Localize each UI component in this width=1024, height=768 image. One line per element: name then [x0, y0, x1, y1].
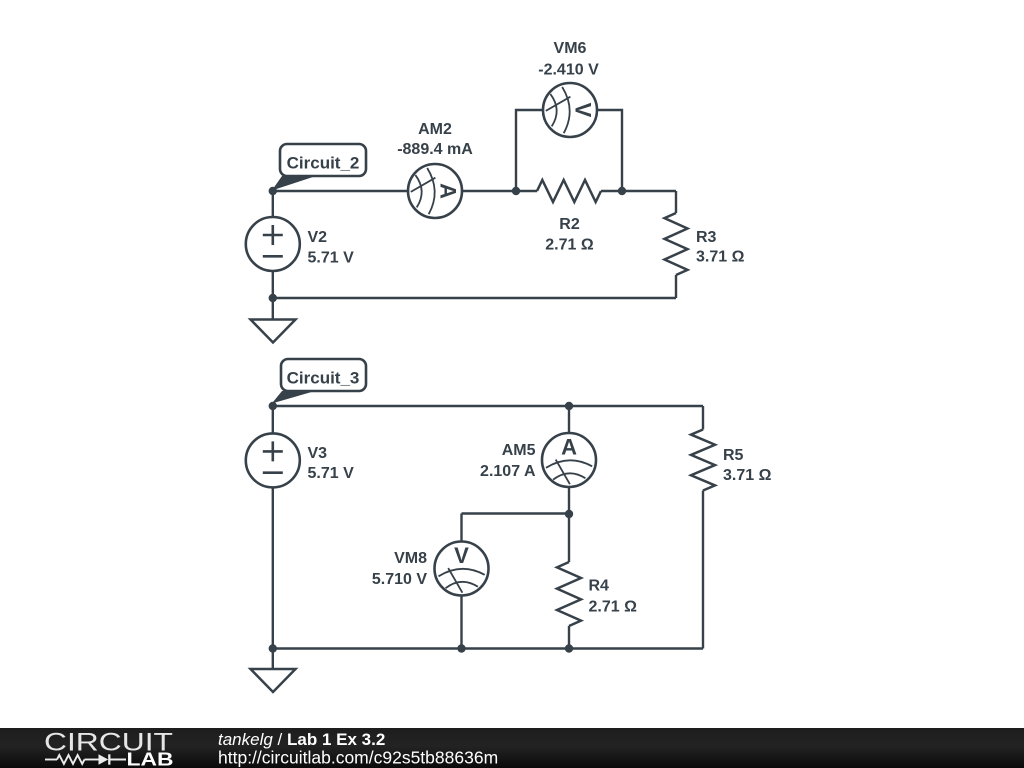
svg-text:V3: V3 — [308, 445, 328, 462]
svg-text:AM2: AM2 — [418, 121, 452, 138]
junction R2 left / VM6 left — [512, 187, 520, 195]
svg-text:AM5: AM5 — [502, 442, 536, 459]
svg-text:2.107 A: 2.107 A — [480, 463, 536, 480]
svg-text:2.71 Ω: 2.71 Ω — [545, 237, 594, 254]
svg-text:3.71 Ω: 3.71 Ω — [723, 467, 772, 484]
svg-text:5.71 V: 5.71 V — [308, 250, 355, 267]
wire top rail circuit 3 — [273, 405, 703, 407]
svg-text:V: V — [571, 103, 596, 118]
svg-text:R2: R2 — [559, 216, 580, 233]
wire R3 right branch — [675, 191, 677, 298]
wire bottom rail circuit 3 — [273, 647, 703, 649]
voltmeter VM8 — [372, 542, 489, 596]
wire V3 branch — [272, 406, 274, 649]
svg-text:2.71 Ω: 2.71 Ω — [589, 599, 638, 616]
junction V3 bottom / ground — [269, 644, 277, 652]
wire bottom rail circuit 2 — [273, 297, 676, 299]
resistor R5 — [691, 430, 772, 491]
wire VM6 loop — [516, 110, 622, 191]
svg-text:A: A — [436, 183, 461, 199]
wire R5 right branch — [702, 406, 704, 649]
svg-text:5.710 V: 5.710 V — [372, 571, 427, 588]
svg-text:5.71 V: 5.71 V — [308, 465, 355, 482]
wire AM5 R4 branch — [568, 406, 570, 649]
wire VM8 branch — [462, 514, 570, 649]
ammeter AM5 — [480, 433, 596, 487]
svg-text:Circuit_2: Circuit_2 — [287, 154, 360, 173]
resistor R2 — [537, 180, 601, 254]
resistor R3 — [665, 213, 745, 275]
node label Circuit_3 — [272, 359, 366, 404]
junction VM8 bottom rail — [457, 644, 465, 652]
ground circuit 2 — [251, 298, 296, 343]
svg-text:V2: V2 — [308, 229, 328, 246]
resistor R4 — [557, 562, 637, 626]
svg-text:tankelg / Lab 1 Ex 3.2: tankelg / Lab 1 Ex 3.2 — [218, 730, 385, 749]
svg-text:A: A — [561, 435, 577, 460]
footer logo resistor-diode symbol — [45, 754, 126, 764]
junction node Circuit_2 at V2 top — [269, 187, 277, 195]
node label Circuit_2 — [272, 144, 366, 191]
junction R4 bottom rail — [565, 644, 573, 652]
junction R2 right / VM6 right — [618, 187, 626, 195]
junction V2 bottom / ground — [269, 294, 277, 302]
voltage source V2 — [246, 217, 354, 271]
svg-text:-2.410 V: -2.410 V — [538, 62, 599, 79]
svg-text:R4: R4 — [589, 578, 610, 595]
voltmeter VM6 — [538, 40, 599, 137]
svg-text:V: V — [454, 543, 469, 568]
wire V2 branch — [272, 191, 274, 298]
wire top rail circuit 2 — [273, 190, 676, 192]
junction AM5 bottom / R4 / VM8 — [565, 510, 573, 518]
svg-text:R3: R3 — [696, 229, 717, 246]
voltage source V3 — [246, 433, 354, 487]
svg-text:VM6: VM6 — [554, 40, 587, 57]
svg-text:VM8: VM8 — [394, 550, 427, 567]
svg-text:-889.4 mA: -889.4 mA — [397, 141, 473, 158]
svg-text:R5: R5 — [723, 447, 744, 464]
footer bar — [0, 728, 1024, 768]
ground circuit 3 — [251, 649, 296, 693]
junction AM5 top rail — [565, 402, 573, 410]
svg-text:LAB: LAB — [127, 750, 174, 768]
svg-text:Circuit_3: Circuit_3 — [287, 369, 360, 388]
junction node Circuit_3 at V3 top — [269, 402, 277, 410]
svg-text:3.71 Ω: 3.71 Ω — [696, 249, 745, 266]
ammeter AM2 — [397, 121, 473, 218]
svg-text:http://circuitlab.com/c92s5tb8: http://circuitlab.com/c92s5tb88636m — [218, 748, 498, 768]
